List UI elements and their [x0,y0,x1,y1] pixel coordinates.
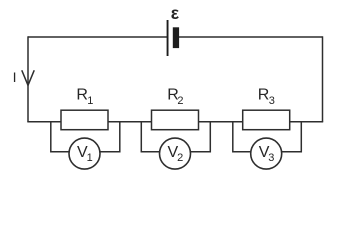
wire top-right segment (battery to top-right corner) [179,36,323,38]
svg-text:2: 2 [177,152,183,164]
label ε (EMF) [171,3,180,23]
voltmeter V2 loop wires [141,122,210,152]
svg-text:3: 3 [269,95,275,107]
current arrow on left wire [22,71,34,86]
resistor R1 [61,110,108,130]
label V3 [259,144,275,164]
resistor R2 [152,110,199,130]
label I (current) [13,69,17,85]
resistor R3 [243,110,290,130]
label V1 [77,144,93,164]
svg-text:I: I [13,69,17,85]
svg-text:1: 1 [87,95,93,107]
wire left vertical [27,36,29,121]
svg-text:1: 1 [87,152,93,164]
wire top-left segment (battery to top-left corner) [28,36,167,38]
label V2 [168,144,184,164]
svg-text:ε: ε [171,3,180,23]
voltmeter V1 loop wires [51,122,120,152]
wire right vertical [322,36,324,121]
voltmeter V1 [69,138,100,169]
voltmeter V3 loop wires [233,122,301,152]
voltmeter V2 [160,138,191,169]
label R3 [258,87,275,107]
wire main horizontal (series loop bottom) [27,121,323,123]
svg-text:2: 2 [177,95,183,107]
label R2 [167,87,183,107]
battery U1 short thick plate (negative terminal) [173,27,179,48]
svg-text:R: R [258,87,270,104]
battery U1 long thin plate (positive terminal) [167,20,169,56]
label R1 [76,87,93,107]
voltmeter V3 [251,138,282,169]
svg-text:3: 3 [268,152,274,164]
